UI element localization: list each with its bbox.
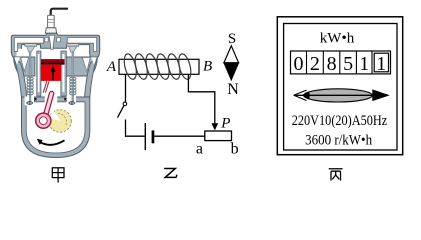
svg-text:b: b	[231, 141, 239, 158]
svg-text:0: 0	[294, 53, 304, 75]
svg-text:220V10(20)A50Hz: 220V10(20)A50Hz	[292, 113, 388, 129]
svg-text:8: 8	[327, 53, 337, 75]
svg-text:B: B	[203, 59, 212, 75]
svg-text:kW•h: kW•h	[320, 31, 355, 47]
svg-text:1: 1	[359, 53, 369, 75]
svg-text:N: N	[227, 81, 239, 98]
svg-text:S: S	[228, 31, 236, 47]
svg-text:5: 5	[343, 53, 353, 75]
svg-text:1: 1	[376, 53, 386, 75]
svg-text:A: A	[106, 59, 117, 75]
svg-text:P: P	[220, 116, 230, 132]
svg-text:3600 r/kW•h: 3600 r/kW•h	[305, 133, 372, 149]
svg-text:2: 2	[310, 53, 320, 75]
svg-text:a: a	[196, 141, 203, 158]
